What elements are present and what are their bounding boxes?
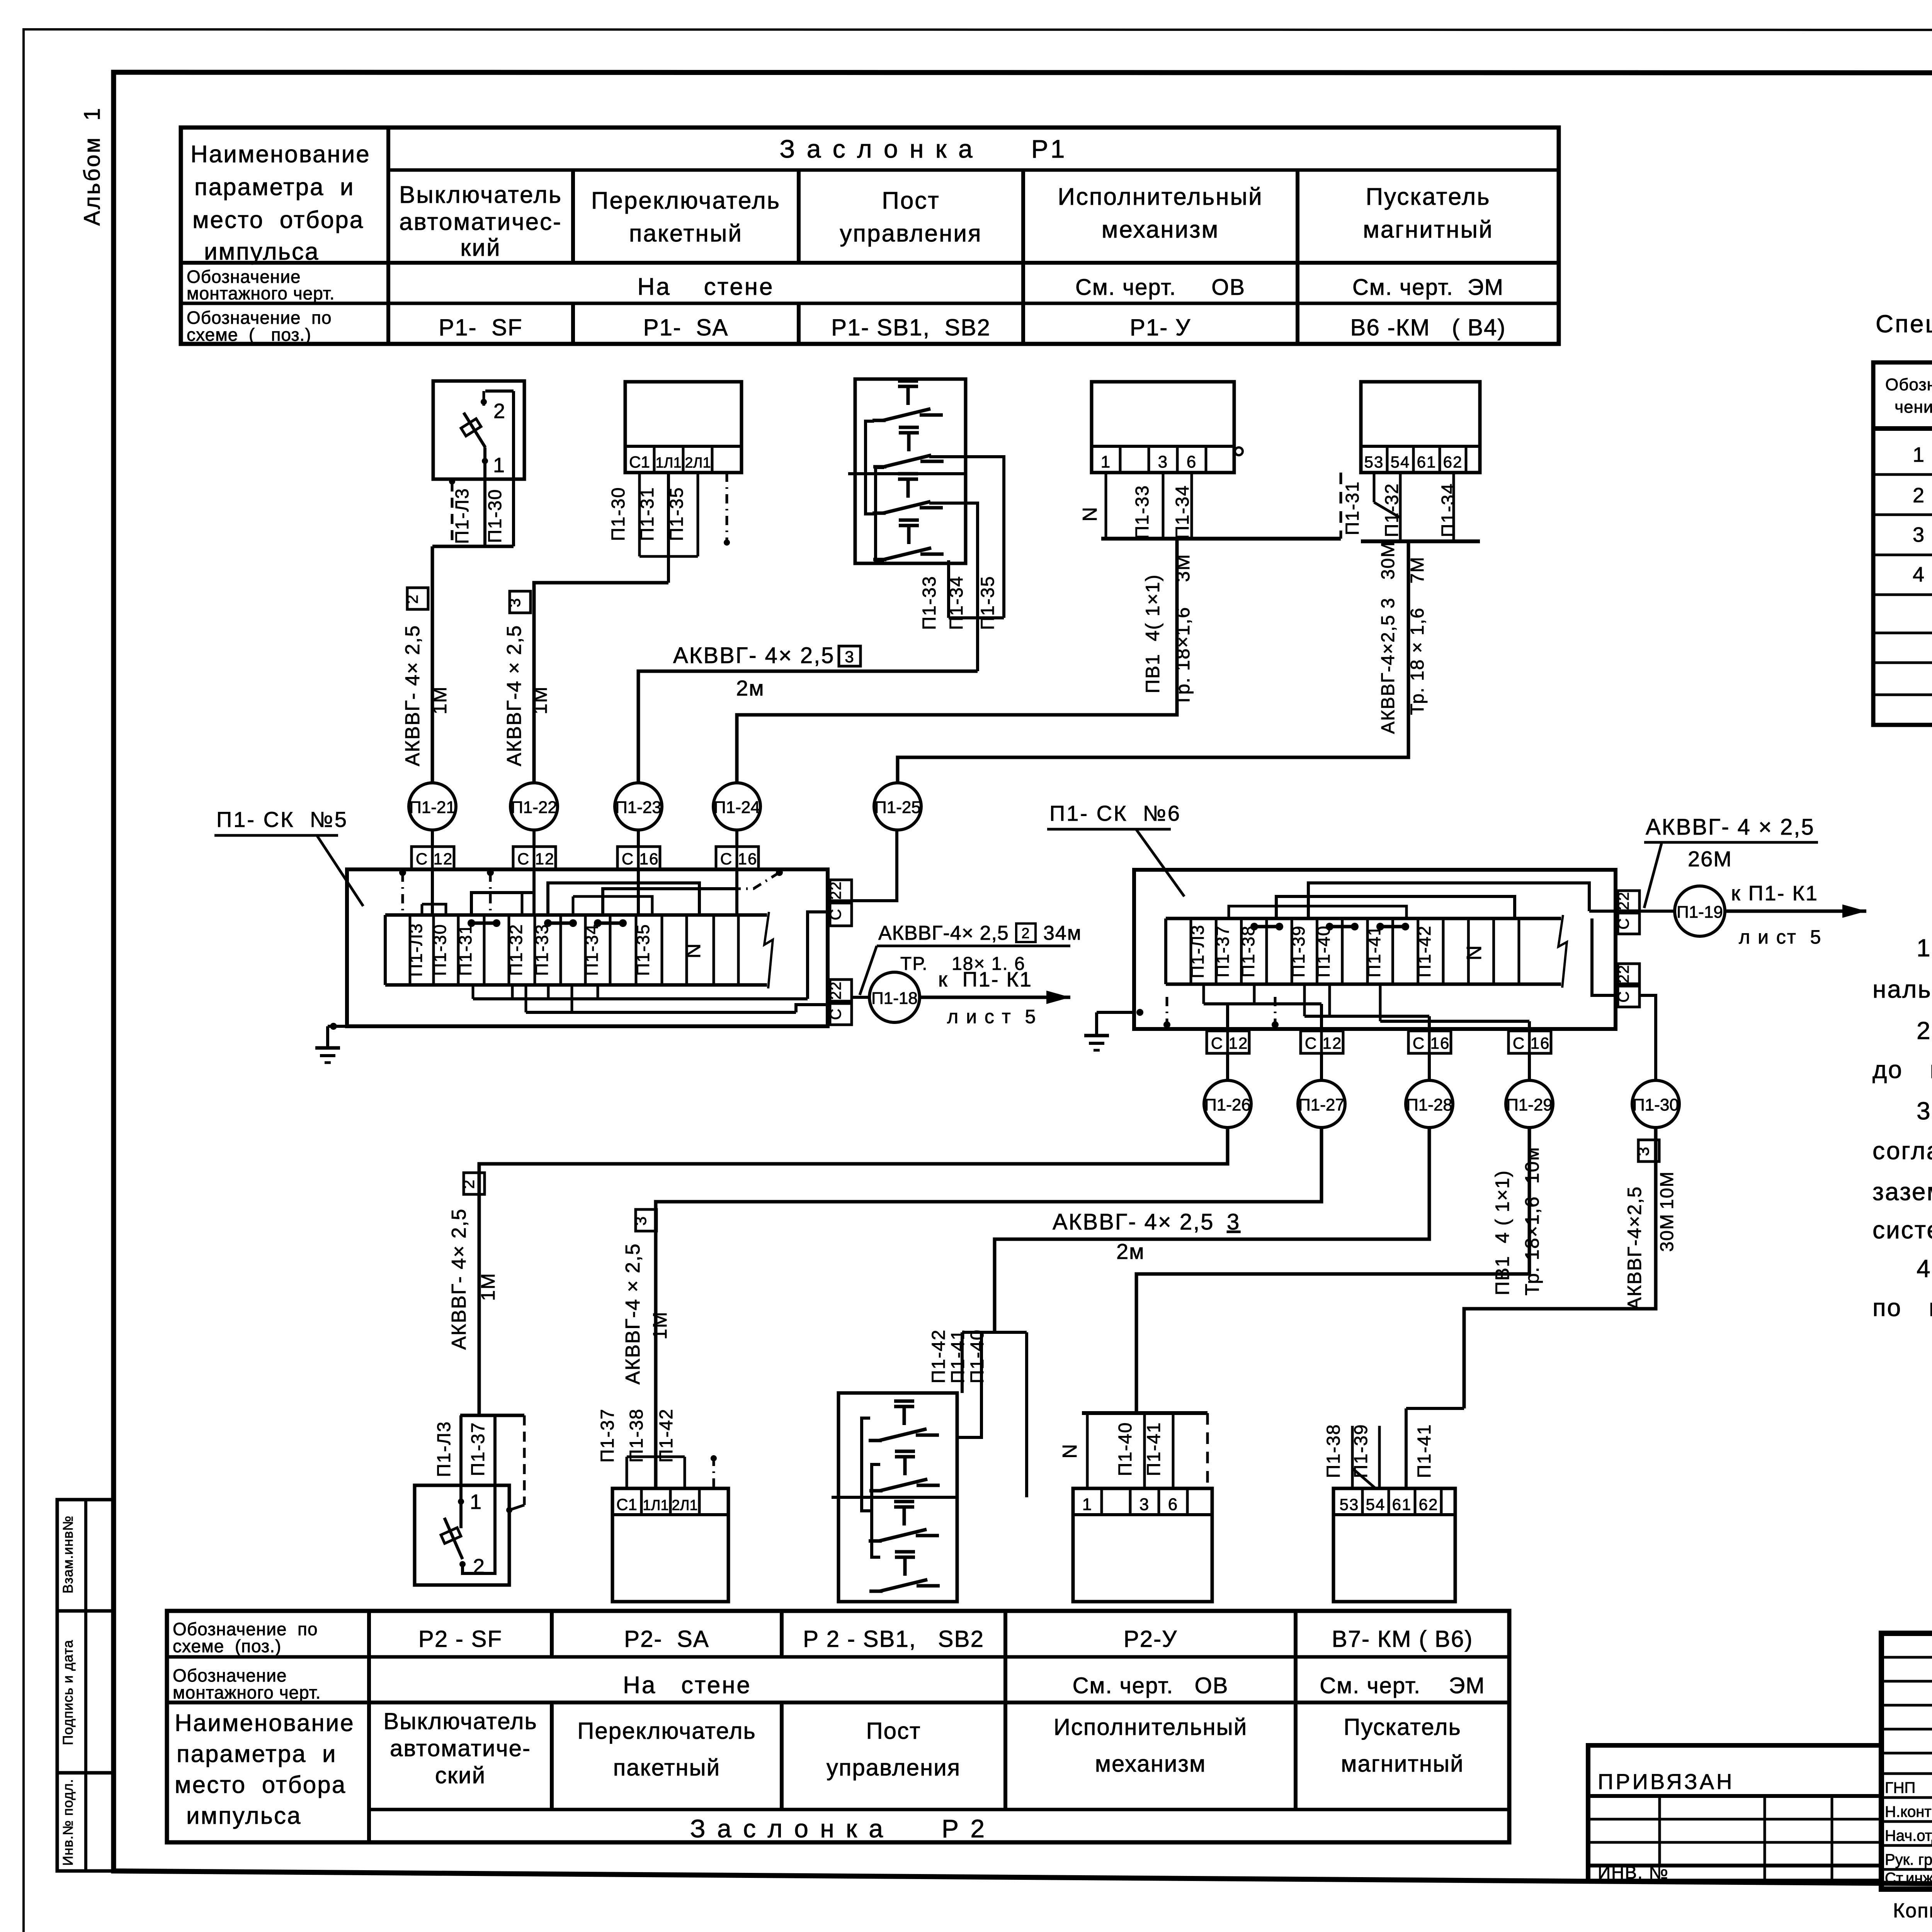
svg-text:Р2-У: Р2-У (1124, 1626, 1177, 1652)
cable marker 2 (407, 588, 428, 609)
svg-text:нальной схеме( лист 2): нальной схеме( лист 2). (1872, 975, 1932, 1003)
svg-text:4. Общий контур зануления: 4. Общий контур зануления выполняется (1917, 1255, 1932, 1282)
svg-text:П1-31: П1-31 (455, 923, 475, 976)
svg-text:Исполнительный: Исполнительный (1054, 1714, 1248, 1740)
svg-text:61: 61 (1392, 1495, 1412, 1514)
svg-text:Тр. 18×1,6 10м: Тр. 18×1,6 10м (1521, 1146, 1543, 1295)
wire to node P1-30 (1639, 995, 1656, 1080)
seal box C22 upper N6 (1618, 891, 1639, 911)
svg-text:54: 54 (1366, 1495, 1386, 1514)
svg-text:Пост: Пост (882, 187, 940, 214)
wires under P1-U (1105, 473, 1107, 539)
cable P1-30 run (1464, 1128, 1656, 1408)
svg-text:Рук. гр.: Рук. гр. (1885, 1851, 1932, 1868)
svg-text:Тр. 18 × 1,6 7М: Тр. 18 × 1,6 7М (1407, 556, 1428, 715)
wires under starter (1373, 473, 1376, 502)
svg-text:импульса: импульса (186, 1803, 301, 1829)
svg-text:Переключатель: Переключатель (577, 1718, 756, 1744)
svg-text:1М: 1М (429, 686, 451, 714)
svg-text:схеме ( поз.): схеме ( поз.) (187, 325, 311, 345)
svg-text:АКВВГ-4× 2,5: АКВВГ-4× 2,5 (878, 922, 1009, 944)
svg-text:П1-39: П1-39 (1351, 1424, 1371, 1478)
strip break mark N6 (1558, 915, 1567, 988)
svg-text:6: 6 (1187, 452, 1197, 471)
node P1-23 (615, 783, 662, 830)
svg-text:С: С (827, 908, 844, 920)
post output wires (929, 457, 1004, 618)
seal box C22 upper N5 (830, 880, 852, 901)
node P1-30 (1632, 1080, 1679, 1128)
svg-text:АКВВГ-4 × 2,5: АКВВГ-4 × 2,5 (503, 625, 526, 766)
svg-text:См. черт. ОВ: См. черт. ОВ (1073, 1673, 1229, 1698)
svg-text:Р2 - SF: Р2 - SF (418, 1626, 502, 1652)
svg-text:П1-35: П1-35 (978, 576, 998, 630)
svg-text:управления: управления (840, 220, 982, 247)
junction box P1-SK N5 (347, 869, 828, 1026)
svg-text:П1-38: П1-38 (1323, 1424, 1344, 1478)
cable P1-26 run (479, 1128, 1228, 1415)
svg-text:П1-41: П1-41 (1144, 1422, 1164, 1476)
wires under P1-SA (638, 473, 641, 556)
svg-text:П1-18: П1-18 (871, 989, 918, 1008)
svg-text:3: 3 (1139, 1495, 1150, 1514)
svg-text:П1- СК №6: П1- СК №6 (1049, 801, 1181, 825)
wires above P2-U (1082, 1411, 1207, 1415)
svg-text:Взам.инв№: Взам.инв№ (60, 1515, 76, 1594)
seal box C 16 bottom at 3958 (1509, 1031, 1529, 1053)
svg-text:монтажного черт.: монтажного черт. (173, 1682, 321, 1702)
svg-text:АКВВГ- 4× 2,5: АКВВГ- 4× 2,5 (1053, 1209, 1214, 1235)
svg-text:параметра и: параметра и (194, 174, 355, 201)
svg-text:монтажного черт.: монтажного черт. (187, 283, 335, 303)
svg-text:3: 3 (1634, 1146, 1652, 1156)
svg-text:2м: 2м (1116, 1239, 1145, 1264)
svg-text:П1-35: П1-35 (633, 923, 653, 976)
svg-text:Ст.инж.: Ст.инж. (1885, 1870, 1932, 1887)
svg-text:чение: чение (1895, 398, 1932, 417)
svg-text:Обозна-: Обозна- (1885, 375, 1932, 394)
svg-text:2: 2 (459, 1179, 478, 1189)
cable marker 3 right (1638, 1140, 1659, 1162)
svg-text:С: С (1513, 1034, 1525, 1052)
svg-text:61: 61 (1417, 453, 1437, 471)
dashed lead P2-SF (523, 1415, 526, 1505)
seal box C22 lower N5 (830, 980, 852, 1001)
svg-text:П1-42: П1-42 (929, 1329, 949, 1384)
svg-text:согласно „ Инструкции по м: согласно „ Инструкции по монтажу защитно… (1872, 1137, 1932, 1165)
svg-text:10М: 10М (1657, 1171, 1677, 1209)
svg-text:26М: 26М (1688, 847, 1732, 871)
svg-text:С1: С1 (629, 453, 650, 471)
seal box C 12 bottom at 3420 (1301, 1031, 1321, 1053)
svg-text:П1-42: П1-42 (656, 1408, 677, 1463)
internal wires N5 above strip (432, 904, 446, 915)
svg-text:параметра и: параметра и (177, 1741, 337, 1767)
svg-text:П1-30: П1-30 (485, 489, 505, 543)
svg-text:ГНП: ГНП (1885, 1779, 1915, 1796)
svg-text:Наименование: Наименование (175, 1710, 355, 1736)
wire to node P1-25 (852, 830, 897, 901)
svg-text:2: 2 (493, 400, 506, 423)
svg-text:П1-32: П1-32 (506, 923, 526, 976)
svg-text:по проекту силового эле: по проекту силового электрооборудования. (1872, 1294, 1932, 1321)
svg-text:1: 1 (1101, 452, 1111, 471)
svg-text:П1-31: П1-31 (637, 487, 658, 541)
svg-text:импульса: импульса (204, 238, 319, 265)
grounding dash-dot leads N5 (399, 869, 406, 876)
svg-text:16: 16 (639, 850, 659, 868)
svg-text:С: С (1305, 1034, 1317, 1052)
svg-text:автоматиче-: автоматиче- (390, 1735, 531, 1761)
svg-text:3. Монтаж защитного зануле: 3. Монтаж защитного зануления выполнить (1917, 1097, 1932, 1125)
post internal wiring bottom (862, 1418, 870, 1511)
svg-text:1: 1 (1913, 443, 1925, 466)
ground symbol N6 (1136, 1009, 1143, 1016)
svg-text:Спецификация основных монтажн: Спецификация основных монтажных материал… (1876, 310, 1932, 338)
svg-text:Инв.№ подл.: Инв.№ подл. (60, 1779, 76, 1866)
svg-text:П1-26: П1-26 (1204, 1095, 1251, 1114)
svg-text:2: 2 (1913, 484, 1925, 507)
grounding dash-dot leads N6 (1166, 997, 1168, 1026)
svg-text:1: 1 (470, 1490, 482, 1514)
svg-text:схеме (поз.): схеме (поз.) (173, 1636, 281, 1656)
svg-text:АКВВГ- 4× 2,5: АКВВГ- 4× 2,5 (673, 643, 835, 668)
svg-text:П1-40: П1-40 (967, 1329, 988, 1384)
cable marker 2 bottom (464, 1173, 485, 1194)
cable P1-23 run (638, 671, 978, 783)
svg-text:3: 3 (505, 597, 524, 607)
node P1-28 (1406, 1080, 1453, 1128)
svg-text:П1-Л3: П1-Л3 (434, 1421, 454, 1477)
svg-text:Наименование: Наименование (190, 141, 371, 168)
svg-text:Р2- SА: Р2- SА (624, 1626, 709, 1652)
svg-text:22: 22 (1615, 964, 1632, 983)
svg-text:16: 16 (1430, 1034, 1450, 1052)
svg-text:С: С (1413, 1034, 1425, 1052)
svg-text:Подпись и дата: Подпись и дата (60, 1640, 76, 1745)
svg-text:12: 12 (535, 850, 555, 868)
svg-text:В7- КМ ( В6): В7- КМ ( В6) (1332, 1626, 1473, 1652)
svg-text:АКВВГ- 4× 2,5: АКВВГ- 4× 2,5 (448, 1208, 470, 1350)
svg-text:П1-28: П1-28 (1406, 1095, 1452, 1114)
svg-text:На стене: На стене (623, 1672, 752, 1699)
svg-text:N: N (1059, 1443, 1081, 1459)
internal riser to seal C22 N6 (1589, 910, 1618, 913)
svg-text:магнитный: магнитный (1363, 216, 1493, 243)
svg-text:Исполнительный: Исполнительный (1058, 184, 1263, 210)
svg-text:П1-37: П1-37 (1213, 925, 1233, 977)
svg-text:С: С (720, 850, 733, 868)
svg-text:П1-34: П1-34 (1172, 485, 1193, 539)
svg-text:С: С (622, 850, 634, 868)
svg-text:N: N (682, 943, 705, 959)
svg-text:54: 54 (1391, 453, 1410, 471)
svg-text:заземления, зануления эле: заземления, зануления электроустановок (1872, 1178, 1932, 1206)
svg-text:П1-38: П1-38 (1238, 925, 1258, 977)
terminal strip N6 (1166, 917, 1561, 920)
seal box C 16 at 1652 (637, 830, 640, 847)
svg-text:П1-42: П1-42 (1414, 925, 1434, 977)
node P1-24 (713, 783, 760, 830)
svg-text:П1-34: П1-34 (1438, 483, 1459, 537)
node P1-25 (874, 783, 921, 830)
svg-text:АКВВГ-4 × 2,5: АКВВГ-4 × 2,5 (622, 1243, 644, 1384)
svg-text:П1-37: П1-37 (597, 1408, 618, 1463)
svg-text:См. черт. ЭМ: См. черт. ЭМ (1320, 1673, 1485, 1698)
svg-text:П1-21: П1-21 (409, 798, 456, 817)
wire bundle under P1-SF (432, 545, 514, 548)
svg-text:ИНВ. №: ИНВ. № (1598, 1862, 1669, 1883)
svg-text:Р1- SF: Р1- SF (439, 315, 522, 340)
svg-text:управления: управления (827, 1755, 961, 1781)
svg-text:механизм: механизм (1102, 216, 1219, 243)
magnetic starter V6-KM (1361, 382, 1480, 473)
svg-text:2. Длины проводов, кабелей: 2. Длины проводов, кабелей и труб уточни… (1917, 1017, 1932, 1044)
svg-text:П1-35: П1-35 (667, 487, 687, 541)
svg-text:53: 53 (1364, 453, 1384, 471)
svg-text:1. Позиции аппаратуры указ: 1. Позиции аппаратуры указаны согласно ф… (1917, 934, 1932, 962)
svg-text:к П1- К1: к П1- К1 (1731, 882, 1818, 905)
actuator P1-U (1092, 382, 1234, 473)
svg-text:П1-34: П1-34 (582, 923, 602, 976)
cable P1-22 run (534, 583, 668, 783)
sidebar stamp boxes (57, 1500, 114, 1871)
arrow to P1-K1 sheet5 right (1725, 910, 1866, 913)
svg-text:АКВВГ- 4 × 2,5: АКВВГ- 4 × 2,5 (1646, 815, 1815, 840)
svg-text:П1-40: П1-40 (1313, 925, 1333, 977)
svg-text:22: 22 (827, 881, 844, 900)
top parameter table P1 (181, 128, 1559, 344)
circuit breaker P1-SF (433, 381, 524, 479)
title block revision rows (1881, 1656, 1932, 1659)
privyazan block (1588, 1745, 1881, 1881)
svg-text:ский: ский (435, 1762, 486, 1788)
cable P1-25 run (898, 541, 1408, 783)
svg-text:П1-39: П1-39 (1288, 925, 1308, 977)
svg-text:АКВВГ- 4× 2,5: АКВВГ- 4× 2,5 (401, 625, 424, 766)
svg-text:62: 62 (1443, 453, 1463, 471)
svg-text:АКВВГ-4×2,5 3 30М: АКВВГ-4×2,5 3 30М (1378, 541, 1398, 734)
svg-text:С: С (1615, 918, 1632, 930)
svg-text:Пускатель: Пускатель (1344, 1714, 1461, 1740)
svg-text:ТР. 18× 1. 6: ТР. 18× 1. 6 (900, 954, 1026, 974)
svg-text:механизм: механизм (1095, 1751, 1206, 1777)
svg-text:П1-22: П1-22 (511, 798, 557, 817)
svg-text:П1-Л3: П1-Л3 (1187, 924, 1207, 978)
svg-text:З а с л о н к а Р1: З а с л о н к а Р1 (780, 134, 1067, 163)
strip jumpers N6 (1254, 925, 1279, 929)
control post P2-SB1 SB2 (838, 1393, 957, 1602)
bottom parameter table P2 (167, 1611, 1509, 1842)
svg-text:N: N (1079, 506, 1101, 522)
svg-text:кий: кий (460, 235, 501, 261)
svg-text:П1-34: П1-34 (946, 576, 967, 630)
svg-text:П1-41: П1-41 (1414, 1424, 1435, 1478)
svg-text:Тр. 18×1,6 3М: Тр. 18×1,6 3М (1172, 554, 1194, 706)
strip jumpers N5 (471, 922, 497, 925)
svg-text:П1-32: П1-32 (1382, 483, 1402, 537)
control post P1-SB1 SB2 (855, 379, 966, 563)
svg-text:П1-38: П1-38 (626, 1408, 647, 1463)
svg-text:П1- СК №5: П1- СК №5 (216, 807, 348, 832)
svg-text:34м: 34м (1043, 922, 1082, 944)
svg-text:Нач.отд: Нач.отд (1885, 1827, 1932, 1844)
internal riser to seal C22 N5 (808, 912, 830, 999)
svg-text:П1-30: П1-30 (608, 487, 629, 541)
svg-text:З а с л о н к а Р 2: З а с л о н к а Р 2 (690, 1814, 987, 1843)
svg-text:62: 62 (1419, 1495, 1439, 1514)
svg-text:С: С (1211, 1034, 1223, 1052)
svg-text:Пост: Пост (866, 1718, 921, 1744)
junction box P1-SK N6 (1134, 870, 1616, 1029)
svg-text:л и с т 5: л и с т 5 (947, 1006, 1037, 1027)
arrow to P1-K1 sheet5 (920, 996, 1070, 999)
svg-text:Выключатель: Выключатель (383, 1708, 537, 1734)
svg-text:30М: 30М (1657, 1213, 1677, 1252)
node P1-19 (1639, 910, 1675, 913)
svg-text:П1-Л3: П1-Л3 (452, 488, 473, 544)
svg-text:ПРИВЯЗАН: ПРИВЯЗАН (1598, 1769, 1734, 1794)
svg-text:См. черт. ЭМ: См. черт. ЭМ (1352, 275, 1504, 300)
svg-text:N: N (1463, 945, 1486, 961)
svg-text:12: 12 (1323, 1034, 1342, 1052)
svg-text:Р1- SA: Р1- SA (643, 315, 729, 340)
svg-text:автоматичес-: автоматичес- (399, 209, 562, 235)
svg-text:Переключатель: Переключатель (591, 187, 781, 214)
svg-text:2: 2 (403, 594, 421, 604)
svg-text:1: 1 (1082, 1495, 1092, 1514)
node P1-29 (1506, 1080, 1553, 1128)
svg-text:П1-37: П1-37 (468, 1422, 488, 1476)
wires above P2-SA (626, 1457, 628, 1488)
seal box C 16 at 1907 (735, 830, 738, 847)
svg-text:Р1- SВ1, SВ2: Р1- SВ1, SВ2 (831, 315, 991, 340)
svg-text:место отбора: место отбора (192, 207, 364, 233)
node P1-21 (409, 783, 456, 830)
cable P1-29 run (1136, 1128, 1529, 1413)
svg-text:1Л1: 1Л1 (643, 1497, 668, 1514)
svg-text:12: 12 (434, 850, 453, 868)
svg-text:С1: С1 (616, 1495, 637, 1514)
svg-text:6: 6 (1168, 1495, 1178, 1514)
seal box C 12 at 1382 (532, 830, 536, 847)
svg-text:л и ст 5: л и ст 5 (1739, 926, 1822, 948)
svg-text:П1-29: П1-29 (1506, 1095, 1553, 1114)
svg-text:П1-Л3: П1-Л3 (406, 923, 426, 977)
svg-text:1М: 1М (649, 1311, 671, 1339)
svg-text:На стене: На стене (637, 274, 774, 300)
svg-text:С: С (416, 850, 428, 868)
svg-text:3: 3 (631, 1216, 650, 1225)
node P1-27 (1298, 1080, 1345, 1128)
svg-text:П1-41: П1-41 (948, 1329, 968, 1384)
post internal wiring (866, 421, 874, 514)
svg-text:В6 -КМ ( В4): В6 -КМ ( В4) (1350, 315, 1506, 340)
svg-text:П1-30: П1-30 (430, 923, 450, 976)
seal box C 12 at 1119 (431, 830, 434, 847)
svg-text:22: 22 (1615, 891, 1632, 910)
cable P1-28 run (995, 1128, 1429, 1332)
node P1-22 (510, 783, 558, 830)
svg-text:16: 16 (738, 850, 758, 868)
svg-text:С: С (827, 1008, 844, 1020)
wires above starter bottom (1406, 1407, 1464, 1410)
strip break mark (764, 912, 773, 988)
svg-text:22: 22 (827, 981, 844, 1000)
svg-text:АКВВГ-4×2,5: АКВВГ-4×2,5 (1624, 1186, 1645, 1310)
post output wires bottom (962, 1331, 1027, 1334)
svg-text:магнитный: магнитный (1341, 1751, 1464, 1777)
node P1-26 (1204, 1080, 1251, 1128)
magnetic starter V7-KM (1333, 1488, 1455, 1602)
cable marker 3 bottom (636, 1209, 656, 1231)
svg-text:2Л1: 2Л1 (672, 1497, 697, 1514)
ground symbol N5 (330, 1023, 337, 1030)
svg-text:Пускатель: Пускатель (1366, 184, 1490, 210)
svg-text:П1-25: П1-25 (874, 798, 921, 817)
svg-text:53: 53 (1340, 1495, 1359, 1514)
svg-text:П1-30: П1-30 (1633, 1095, 1679, 1114)
cable marker 3 (510, 591, 531, 613)
svg-text:пакетный: пакетный (613, 1755, 720, 1781)
svg-text:место отбора: место отбора (175, 1772, 346, 1798)
svg-text:3: 3 (845, 648, 854, 666)
wires N6 below strip (1202, 984, 1205, 1004)
svg-text:1М: 1М (477, 1272, 499, 1301)
title block staff rows (1881, 1772, 1932, 1775)
svg-text:П1-23: П1-23 (615, 798, 662, 817)
svg-text:3: 3 (1913, 523, 1925, 546)
svg-text:2: 2 (1021, 925, 1030, 942)
actuator P2-U (1073, 1488, 1212, 1602)
svg-text:П1-41: П1-41 (1364, 925, 1384, 977)
svg-text:П1-19: П1-19 (1677, 903, 1723, 922)
svg-text:ПВ1 4( 1×1): ПВ1 4( 1×1) (1142, 574, 1163, 694)
svg-text:П1-31: П1-31 (1342, 481, 1363, 536)
svg-text:Р 2 - SВ1, SВ2: Р 2 - SВ1, SВ2 (803, 1626, 984, 1652)
svg-text:Р1- У: Р1- У (1130, 315, 1191, 340)
terminal strip N5 (385, 913, 767, 917)
svg-text:П1-24: П1-24 (714, 798, 760, 817)
svg-text:1: 1 (493, 454, 505, 477)
seal box C22 lower N6 (1618, 964, 1639, 984)
svg-text:Копировал Семахина: Копировал Семахина (1893, 1900, 1932, 1922)
svg-text:Альбом 1: Альбом 1 (80, 107, 105, 226)
node P1-18 (852, 996, 869, 999)
svg-text:3: 3 (1227, 1209, 1240, 1235)
seal box C 12 bottom at 3177 (1207, 1031, 1228, 1053)
cable P1-24 run (737, 539, 1177, 783)
cable P1-27 run (656, 1128, 1321, 1488)
svg-text:3: 3 (1158, 452, 1168, 471)
seal box C 16 bottom at 3699 (1408, 1031, 1429, 1053)
svg-text:2м: 2м (736, 676, 765, 700)
specification table (1873, 362, 1932, 725)
packet switch P2-SA (612, 1488, 728, 1602)
svg-text:систем автоматизации ВС: систем автоматизации ВСН - 296 -78. (1872, 1216, 1932, 1244)
svg-text:пакетный: пакетный (629, 220, 743, 247)
svg-text:П1-40: П1-40 (1115, 1422, 1136, 1476)
packet switch P1-SA (625, 382, 742, 473)
internal wires N6 above strip (1308, 883, 1589, 918)
svg-text:Н.контр.: Н.контр. (1885, 1803, 1932, 1820)
svg-text:Выключатель: Выключатель (399, 182, 562, 208)
svg-text:2Л1: 2Л1 (685, 455, 711, 471)
svg-text:П1-27: П1-27 (1298, 1095, 1345, 1114)
svg-text:до нарезки при монта: до нарезки при монтаже. (1872, 1056, 1932, 1083)
cable P1-21 riser (431, 546, 434, 783)
svg-text:12: 12 (1229, 1034, 1248, 1052)
